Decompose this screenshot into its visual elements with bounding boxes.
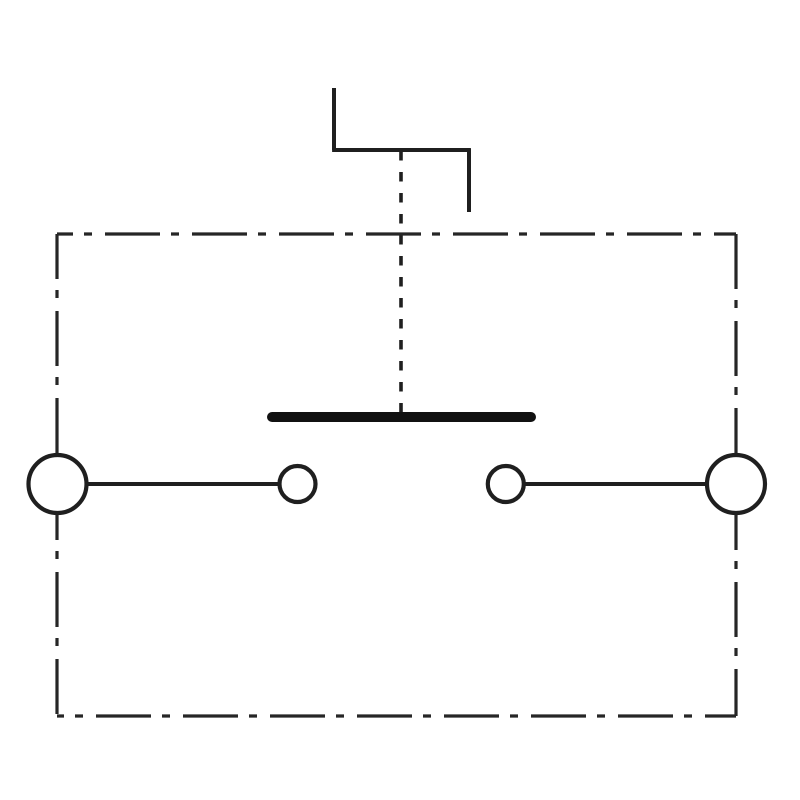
enclosure top edge (dash-dot)	[57, 232, 736, 235]
actuator horizontal bar	[332, 148, 470, 152]
left fixed contact circle	[280, 466, 316, 502]
terminal T1 circle (left)	[29, 455, 87, 513]
actuator stem vertical segment	[332, 88, 336, 150]
enclosure right edge (dash-dot)	[734, 234, 737, 716]
movable contact bridge bar	[272, 412, 531, 422]
actuator right drop segment	[467, 148, 471, 212]
right fixed contact circle	[488, 466, 524, 502]
wire from terminal T1 to left fixed contact	[87, 482, 280, 486]
mechanical linkage dashed line	[399, 151, 403, 412]
enclosure bottom edge (dash-dot)	[57, 714, 736, 717]
terminal T2 circle (right)	[707, 455, 765, 513]
enclosure left edge (dash-dot)	[55, 234, 58, 716]
wire from right fixed contact to terminal T2	[524, 482, 708, 486]
